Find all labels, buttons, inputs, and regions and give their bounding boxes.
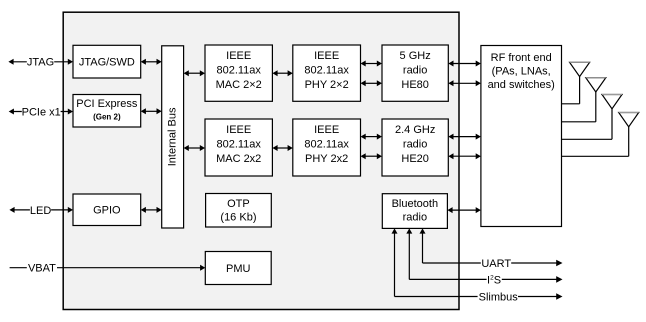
svg-text:JTAG: JTAG — [27, 57, 54, 69]
text GPIO — [93, 205, 121, 217]
wire GPIO to Internal Bus — [141, 207, 162, 213]
svg-text:IEEE: IEEE — [314, 124, 339, 136]
wire PCI Express to Internal Bus — [141, 108, 162, 114]
wire LED external — [9, 207, 73, 213]
svg-text:RF front end: RF front end — [491, 52, 552, 64]
block PCI Express — [73, 95, 141, 128]
svg-text:IEEE: IEEE — [314, 50, 339, 62]
wire MAC to PHY 5GHz — [272, 70, 292, 76]
label LED — [30, 205, 51, 217]
block IEEE 802.11ax MAC 2x2 (2.4GHz path) — [205, 119, 272, 176]
block GPIO — [73, 194, 141, 226]
svg-text:Bluetooth: Bluetooth — [392, 198, 438, 210]
svg-text:and switches): and switches) — [488, 79, 555, 91]
svg-text:UART: UART — [481, 258, 511, 270]
svg-text:PHY 2x2: PHY 2x2 — [305, 153, 348, 165]
svg-text:5 GHz: 5 GHz — [400, 50, 431, 62]
wire 2.4GHz radio to RF front end stream 2 — [448, 153, 481, 159]
wire I2S from Bluetooth radio — [406, 228, 562, 282]
label JTAG — [27, 57, 54, 69]
text Internal Bus (rotated) — [167, 107, 179, 166]
text IEEE 802.11ax MAC 2x2 (row 1) — [216, 50, 262, 91]
svg-text:I2S: I2S — [487, 274, 501, 286]
svg-text:802.11ax: 802.11ax — [216, 64, 261, 76]
label I2S — [487, 274, 501, 286]
svg-text:802.11ax: 802.11ax — [216, 138, 261, 150]
wire 2.4GHz radio to RF front end stream 1 — [448, 134, 481, 140]
svg-text:GPIO: GPIO — [93, 205, 121, 217]
block 5 GHz radio HE80 — [382, 45, 448, 101]
block PMU — [205, 252, 271, 285]
text IEEE 802.11ax PHY 2x2 (row 2) — [304, 124, 349, 165]
text Bluetooth radio — [392, 198, 438, 224]
block IEEE 802.11ax MAC 2x2 (5GHz path) — [205, 45, 272, 101]
block RF front end — [481, 46, 562, 227]
label background patches — [22, 56, 518, 303]
text IEEE 802.11ax PHY 2x2 (row 1) — [304, 50, 349, 91]
svg-text:(PAs, LNAs,: (PAs, LNAs, — [492, 66, 551, 78]
text 2.4 GHz radio HE20 — [395, 124, 435, 165]
svg-text:2.4 GHz: 2.4 GHz — [395, 124, 435, 136]
svg-text:(Gen 2): (Gen 2) — [93, 113, 121, 122]
block JTAG/SWD — [73, 45, 141, 78]
svg-text:PCIe x1: PCIe x1 — [22, 106, 61, 118]
svg-text:IEEE: IEEE — [226, 124, 251, 136]
wire 5GHz radio to RF front end stream 2 — [448, 80, 481, 86]
label UART — [481, 258, 511, 270]
wire MAC to PHY 2.4GHz — [272, 145, 292, 151]
wire PCIe external — [9, 109, 73, 115]
antenna ANT2 — [562, 78, 606, 122]
wire PHY to 2.4GHz radio stream 1 — [361, 134, 383, 140]
wire JTAG/SWD to Internal Bus — [141, 59, 162, 65]
svg-text:Slimbus: Slimbus — [479, 291, 519, 303]
SoC outer boundary box — [63, 12, 459, 309]
block Internal Bus — [162, 46, 184, 228]
svg-text:(16 Kb): (16 Kb) — [220, 212, 256, 224]
label VBAT — [28, 263, 56, 275]
label Slimbus — [479, 291, 519, 303]
antenna ANT1 — [562, 62, 590, 104]
antenna ANT4 — [562, 113, 639, 157]
wire JTAG external — [8, 59, 73, 65]
text PCI Express (Gen 2) — [76, 98, 138, 122]
text OTP (16 Kb) — [220, 198, 256, 224]
svg-text:radio: radio — [403, 212, 427, 224]
svg-text:PCI Express: PCI Express — [76, 98, 138, 110]
wire UART from Bluetooth radio — [420, 228, 563, 266]
svg-text:JTAG/SWD: JTAG/SWD — [79, 57, 135, 69]
svg-text:802.11ax: 802.11ax — [304, 138, 349, 150]
svg-text:LED: LED — [30, 205, 51, 217]
block 2.4 GHz radio HE20 — [382, 119, 448, 176]
svg-text:radio: radio — [403, 64, 427, 76]
block IEEE 802.11ax PHY 2x2 (5GHz path) — [293, 45, 361, 101]
svg-text:PMU: PMU — [226, 263, 251, 275]
block Bluetooth radio — [382, 194, 447, 229]
svg-text:802.11ax: 802.11ax — [304, 64, 349, 76]
svg-text:MAC 2×2: MAC 2×2 — [216, 79, 262, 91]
text PMU — [226, 263, 251, 275]
svg-text:HE20: HE20 — [401, 153, 429, 165]
label PCIe x1 — [22, 106, 61, 118]
wire Bluetooth radio to RF front end — [447, 207, 481, 213]
svg-text:IEEE: IEEE — [226, 50, 251, 62]
svg-text:PHY 2×2: PHY 2×2 — [305, 79, 349, 91]
svg-text:radio: radio — [403, 138, 427, 150]
wire PHY to 5GHz radio stream 1 — [361, 61, 383, 67]
text RF front end (PAs, LNAs, and switches) — [488, 52, 555, 91]
svg-text:OTP: OTP — [227, 198, 250, 210]
svg-text:Internal Bus: Internal Bus — [167, 107, 179, 166]
wire Internal Bus to MAC 5GHz — [184, 70, 205, 76]
block IEEE 802.11ax PHY 2x2 (2.4GHz path) — [293, 119, 361, 176]
text JTAG/SWD — [79, 57, 135, 69]
wire 5GHz radio to RF front end stream 1 — [448, 61, 481, 67]
wire VBAT to PMU — [10, 265, 206, 271]
wire PHY to 2.4GHz radio stream 2 — [361, 153, 383, 159]
wire Internal Bus to MAC 2.4GHz — [184, 145, 205, 151]
text IEEE 802.11ax MAC 2x2 (row 2) — [216, 124, 261, 165]
wire Slimbus from Bluetooth radio — [392, 228, 563, 299]
svg-text:VBAT: VBAT — [28, 263, 56, 275]
block OTP (16 Kb) — [206, 194, 272, 228]
svg-text:HE80: HE80 — [401, 79, 429, 91]
text 5 GHz radio HE80 — [400, 50, 431, 91]
wire PHY to 5GHz radio stream 2 — [361, 80, 383, 86]
antenna ANT3 — [562, 95, 623, 140]
svg-text:MAC 2x2: MAC 2x2 — [216, 153, 261, 165]
